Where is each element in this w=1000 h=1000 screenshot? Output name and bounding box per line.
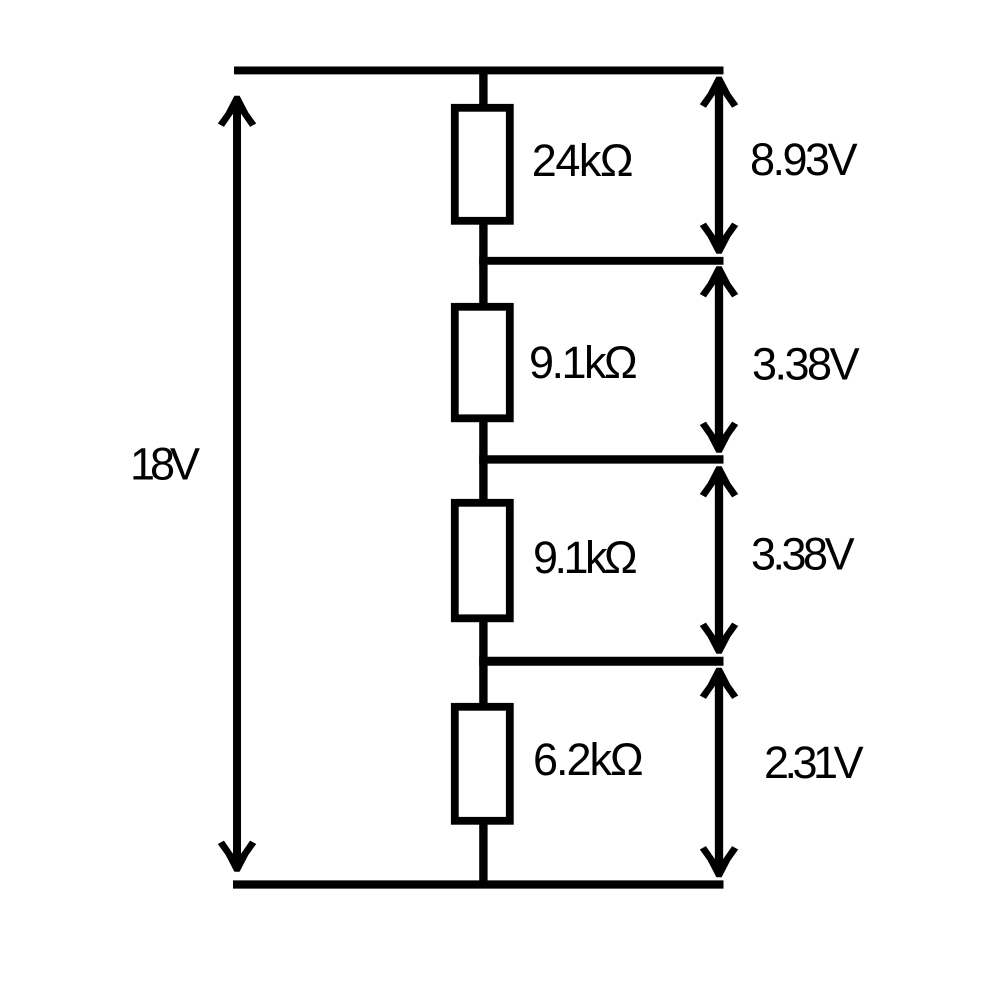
svg-text:9.1kΩ: 9.1kΩ bbox=[533, 532, 636, 583]
wire: node C tap (between R3 and R4) bbox=[479, 657, 723, 666]
svg-text:8.93V: 8.93V bbox=[750, 134, 858, 185]
dimension arrow: 2.31V across R4 bbox=[700, 668, 738, 877]
dimension arrow: 18V source span bbox=[218, 96, 256, 872]
dimension arrow: 3.38V across R2 bbox=[700, 266, 738, 452]
resistor R1 24k bbox=[455, 108, 510, 221]
svg-text:3.38V: 3.38V bbox=[751, 529, 855, 580]
wire: vertical divider bus bbox=[479, 68, 487, 887]
svg-text:9.1kΩ: 9.1kΩ bbox=[529, 337, 636, 388]
svg-text:6.2kΩ: 6.2kΩ bbox=[533, 734, 642, 785]
resistor R4 6.2k bbox=[455, 707, 510, 821]
resistor R2 9.1k bbox=[455, 307, 510, 419]
wire: node A tap (between R1 and R2) bbox=[479, 257, 723, 265]
wire: top supply rail (18V+) bbox=[234, 66, 724, 74]
wire: bottom return rail (0V) bbox=[233, 880, 724, 888]
svg-text:24kΩ: 24kΩ bbox=[532, 135, 632, 186]
resistor R3 9.1k bbox=[455, 503, 510, 619]
svg-text:18V: 18V bbox=[130, 439, 200, 490]
svg-text:3.38V: 3.38V bbox=[752, 339, 860, 390]
wire: node B tap (between R2 and R3) bbox=[479, 455, 723, 463]
dimension arrow: 3.38V across R3 bbox=[700, 466, 738, 653]
dimension arrow: 8.93V across R1 bbox=[700, 77, 738, 254]
svg-text:2.31V: 2.31V bbox=[764, 737, 864, 788]
